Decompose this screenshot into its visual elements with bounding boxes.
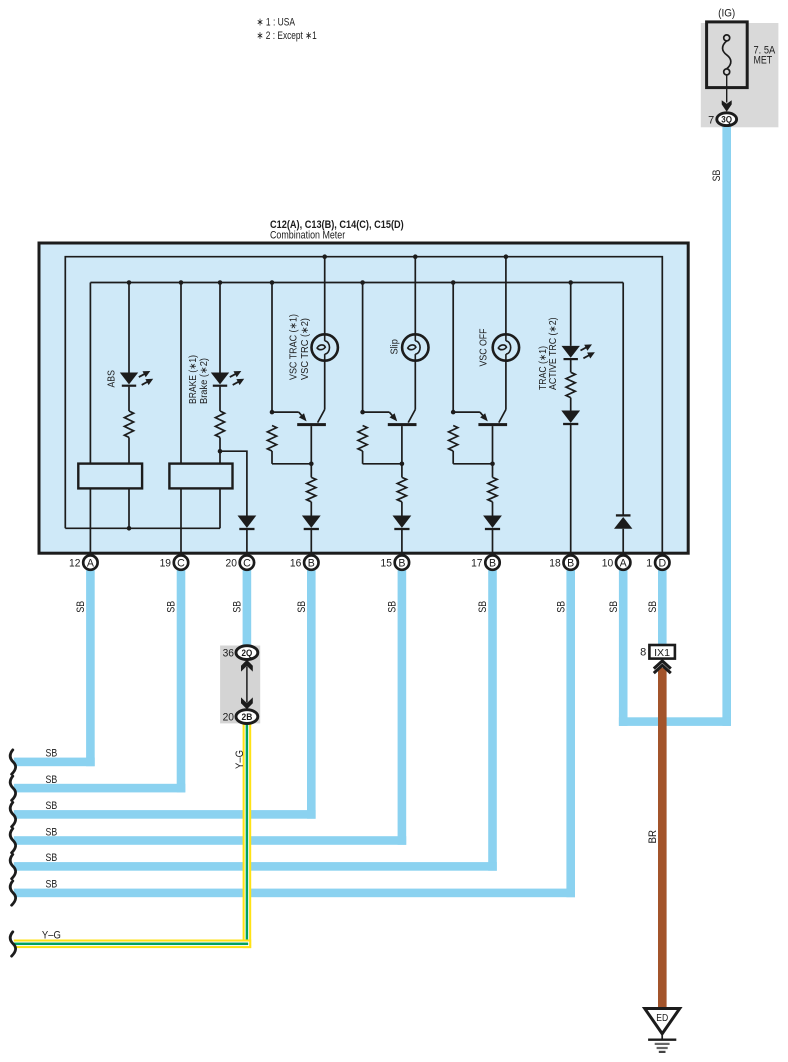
wire Y-G horizontal bbox=[14, 940, 251, 949]
svg-text:B: B bbox=[308, 558, 315, 570]
svg-text:A: A bbox=[87, 558, 95, 570]
wire SB vertical bbox=[566, 570, 575, 897]
wire SB horizontal row bbox=[14, 862, 497, 871]
resistor R1 (ABS) bbox=[124, 411, 133, 437]
pin 1(D) bbox=[655, 555, 669, 569]
transistor Q3 cell (VSC OFF) bbox=[452, 283, 454, 413]
wire SB vertical bbox=[86, 570, 95, 766]
connector 2B bbox=[236, 710, 258, 724]
ground ED bbox=[645, 1009, 680, 1034]
pin 10(A) bbox=[616, 555, 630, 569]
wire-continuation squiggle bbox=[10, 802, 15, 826]
node bus2 bulb1 bbox=[322, 254, 327, 259]
svg-text:19: 19 bbox=[160, 558, 171, 570]
connector 2Q bbox=[236, 646, 258, 660]
shield: fuse panel bbox=[701, 23, 779, 127]
pin 15(B) bbox=[395, 555, 409, 569]
node bus2 abs-return bbox=[127, 526, 132, 531]
wire-continuation squiggle bbox=[10, 776, 15, 800]
wire SB horizontal row bbox=[14, 784, 186, 793]
svg-text:3Q: 3Q bbox=[721, 115, 732, 125]
wire BRAKE led branch bbox=[219, 283, 221, 373]
diode D1 (pin 20) bbox=[238, 516, 257, 528]
svg-text:SB: SB bbox=[608, 601, 620, 613]
wire TRAC branch bbox=[570, 283, 572, 346]
wire bus3 bbox=[90, 282, 623, 284]
svg-text:12: 12 bbox=[69, 558, 80, 570]
svg-text:BRAKE (∗1): BRAKE (∗1) bbox=[188, 355, 199, 404]
wire BRAKE resistor down bbox=[219, 437, 221, 528]
pin 17(B) bbox=[485, 555, 499, 569]
svg-text:SB: SB bbox=[75, 601, 87, 613]
svg-text:MET: MET bbox=[754, 54, 773, 66]
connector IX1 bbox=[649, 645, 675, 659]
combination meter box U1 bbox=[39, 243, 688, 553]
LED TRAC bbox=[562, 346, 580, 358]
double chevron to IX1 bbox=[654, 661, 671, 669]
wire brake pin19 leg bbox=[180, 283, 182, 555]
resistor R2 (BRAKE) bbox=[215, 411, 224, 437]
component box (ABS) bbox=[78, 464, 142, 489]
fuse element bbox=[723, 41, 731, 69]
wire SB pin 10 down bbox=[619, 570, 628, 726]
svg-text:SB: SB bbox=[647, 601, 659, 613]
node bus2 bulb3 bbox=[504, 254, 509, 259]
wire-continuation squiggle bbox=[10, 881, 15, 905]
svg-text:18: 18 bbox=[549, 558, 560, 570]
wire ABS resistor to bus2 bbox=[128, 437, 130, 528]
transistor Q1 cell (VSC TRAC) bbox=[271, 283, 273, 413]
diode D6 (up, pin 10) bbox=[616, 514, 631, 516]
wire bus2 loop bbox=[65, 257, 662, 555]
svg-text:VSC TRC (∗2): VSC TRC (∗2) bbox=[300, 318, 311, 380]
svg-text:SB: SB bbox=[46, 774, 58, 786]
wire bus3 left leg to pin 12 bbox=[89, 283, 91, 555]
LED ABS bbox=[120, 373, 138, 385]
wire-continuation squiggle bbox=[10, 854, 15, 878]
wire SB horizontal row bbox=[14, 889, 575, 898]
wire SB horizontal row bbox=[14, 836, 406, 845]
wire SB vertical bbox=[398, 570, 407, 845]
svg-text:Combination Meter: Combination Meter bbox=[270, 230, 345, 242]
svg-text:(IG): (IG) bbox=[718, 8, 735, 20]
svg-text:Brake (∗2): Brake (∗2) bbox=[199, 358, 210, 404]
component box (BRAKE) bbox=[169, 464, 232, 489]
wire SB pin 20 to 2Q bbox=[243, 570, 252, 647]
wire-continuation squiggle Y-G bbox=[10, 932, 15, 956]
svg-text:1: 1 bbox=[646, 558, 652, 570]
svg-text:∗ 1 : USA: ∗ 1 : USA bbox=[257, 17, 296, 29]
svg-text:7: 7 bbox=[708, 115, 714, 127]
svg-text:B: B bbox=[398, 558, 405, 570]
wire TRAC mid bbox=[570, 398, 572, 411]
svg-text:10: 10 bbox=[602, 558, 613, 570]
svg-text:SB: SB bbox=[166, 601, 178, 613]
svg-text:17: 17 bbox=[471, 558, 482, 570]
resistor R3 (TRAC) bbox=[566, 372, 575, 397]
svg-text:∗ 2 : Except ∗1: ∗ 2 : Except ∗1 bbox=[257, 30, 317, 42]
wire SB vertical bbox=[177, 570, 186, 792]
svg-text:15: 15 bbox=[381, 558, 392, 570]
svg-text:SB: SB bbox=[46, 748, 58, 760]
wire to pin20 diode bbox=[220, 451, 247, 515]
wire bus3 right leg to pin 10 bbox=[622, 283, 624, 515]
wire Y-G vertical bbox=[243, 723, 252, 948]
svg-text:Y–G: Y–G bbox=[234, 750, 246, 769]
node bus3 junction bbox=[270, 280, 275, 285]
svg-text:SB: SB bbox=[46, 852, 58, 864]
svg-text:D: D bbox=[658, 558, 666, 570]
LED BRAKE bbox=[211, 373, 229, 385]
node bus3 junction bbox=[218, 280, 223, 285]
svg-text:B: B bbox=[489, 558, 496, 570]
svg-text:20: 20 bbox=[223, 712, 234, 724]
node bus3 junction bbox=[127, 280, 132, 285]
svg-text:ACTIVE TRC (∗2): ACTIVE TRC (∗2) bbox=[548, 317, 559, 390]
node bus3 junction bbox=[451, 280, 456, 285]
pin 20(C) bbox=[240, 555, 254, 569]
svg-text:BR: BR bbox=[647, 830, 659, 844]
wire SB horizontal row bbox=[14, 758, 95, 767]
node bus3 junction bbox=[360, 280, 365, 285]
wire-continuation squiggle bbox=[10, 829, 15, 853]
wire SB vertical bbox=[307, 570, 316, 819]
svg-text:C: C bbox=[177, 558, 185, 570]
wire-continuation squiggle bbox=[10, 750, 15, 774]
wire SB pin 1 to IX1 bbox=[658, 570, 667, 646]
pin 19(C) bbox=[174, 555, 188, 569]
svg-text:A: A bbox=[620, 558, 628, 570]
svg-text:IX1: IX1 bbox=[654, 647, 670, 659]
svg-text:SB: SB bbox=[296, 601, 308, 613]
svg-text:SB: SB bbox=[711, 170, 723, 182]
svg-text:SB: SB bbox=[46, 826, 58, 838]
diode D5 (TRAC) bbox=[561, 411, 580, 423]
svg-text:SB: SB bbox=[387, 601, 399, 613]
svg-text:VSC TRAC (∗1): VSC TRAC (∗1) bbox=[289, 314, 300, 380]
svg-text:2Q: 2Q bbox=[242, 648, 253, 658]
node brake-diode junction bbox=[218, 449, 223, 454]
svg-text:B: B bbox=[567, 558, 574, 570]
svg-text:2B: 2B bbox=[242, 712, 253, 722]
arrow up to 2Q bbox=[241, 660, 253, 672]
svg-text:SB: SB bbox=[46, 800, 58, 812]
svg-text:SB: SB bbox=[555, 601, 567, 613]
svg-text:SB: SB bbox=[232, 601, 244, 613]
svg-text:16: 16 bbox=[290, 558, 301, 570]
pin 12(A) bbox=[83, 555, 97, 569]
svg-text:Y–G: Y–G bbox=[42, 930, 61, 942]
shield: connector panel bbox=[220, 646, 260, 724]
wire ABS led branch bbox=[128, 283, 130, 373]
svg-text:ABS: ABS bbox=[107, 370, 118, 388]
wire SB horizontal to pin 10 bbox=[619, 717, 731, 726]
pin 18(B) bbox=[564, 555, 578, 569]
arrow into 3Q bbox=[722, 100, 732, 112]
node bus3 junction bbox=[568, 280, 573, 285]
fuse 7.5A MET box bbox=[707, 22, 748, 88]
wire TRAC to pin 18 bbox=[570, 424, 572, 555]
svg-text:36: 36 bbox=[223, 648, 234, 660]
wire fuse to 3Q bbox=[726, 75, 728, 103]
svg-text:Slip: Slip bbox=[390, 339, 401, 355]
connector 3Q bbox=[717, 113, 737, 126]
wire SB from fuse 3Q down bbox=[722, 126, 731, 726]
svg-text:ED: ED bbox=[656, 1013, 668, 1024]
node bus2 bulb2 bbox=[413, 254, 418, 259]
svg-text:8: 8 bbox=[640, 647, 646, 659]
svg-text:C: C bbox=[243, 558, 251, 570]
svg-text:VSC OFF: VSC OFF bbox=[479, 329, 490, 367]
pin 16(B) bbox=[304, 555, 318, 569]
node bus3 junction bbox=[179, 280, 184, 285]
wire SB horizontal row bbox=[14, 810, 316, 819]
arrow down to 2B bbox=[241, 697, 253, 709]
wire SB vertical bbox=[488, 570, 497, 871]
svg-text:20: 20 bbox=[226, 558, 237, 570]
svg-text:SB: SB bbox=[477, 601, 489, 613]
transistor Q2 cell (Slip) bbox=[362, 283, 364, 413]
wire BR to ground bbox=[658, 668, 667, 1008]
svg-text:SB: SB bbox=[46, 879, 58, 891]
